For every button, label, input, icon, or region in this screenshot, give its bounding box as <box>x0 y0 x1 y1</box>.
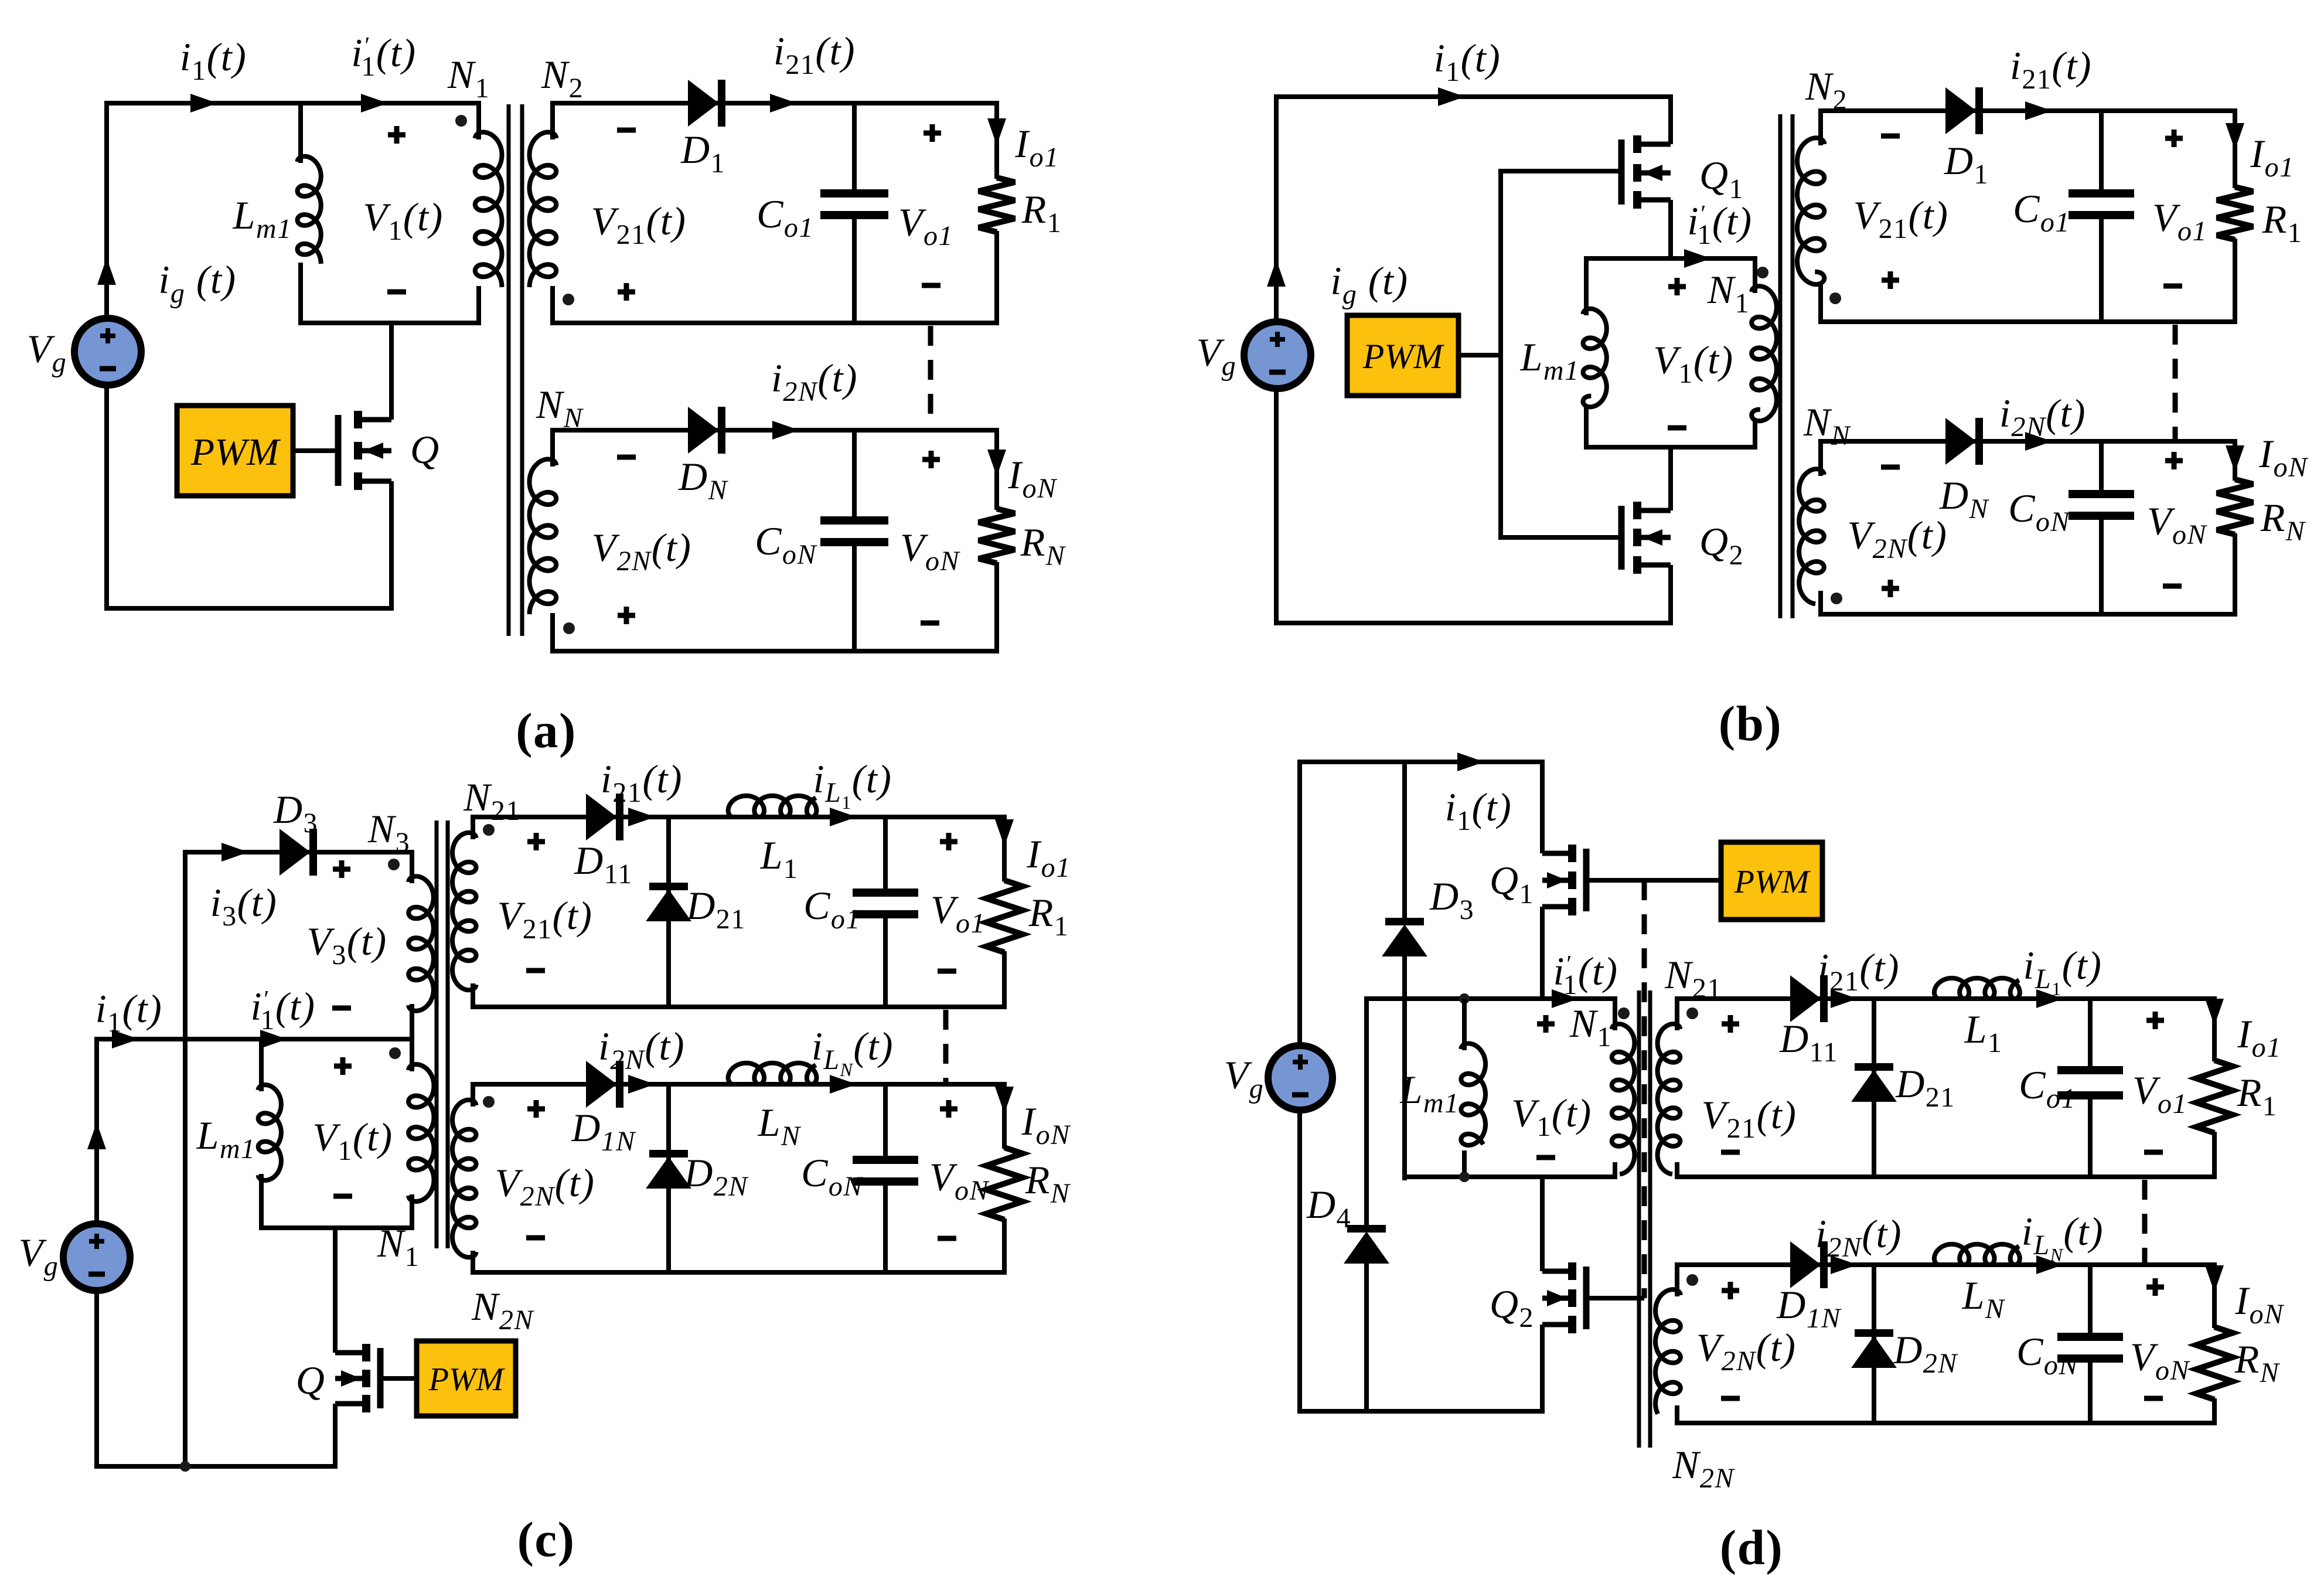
label minus V21 <box>617 128 636 133</box>
transformer primary winding N1 coil <box>475 132 502 287</box>
secondary N2 lead top (b) <box>1818 108 1823 145</box>
MOSFET Q2 (b) <box>1637 508 1671 513</box>
capacitor CoN plates <box>820 516 888 525</box>
label plus V2N (c) <box>527 1107 545 1112</box>
voltage source Vg (c) <box>63 1224 130 1291</box>
inductor LN (d) <box>1934 1244 2020 1265</box>
PWM box <box>177 406 293 496</box>
label plus V3 (c) <box>333 867 350 872</box>
capacitor Co1 plates (b) <box>2069 189 2134 198</box>
gate wire Q2 (d) <box>1586 1296 1644 1301</box>
svg-text:ig (t): ig (t) <box>158 257 236 309</box>
label plus Vo1 <box>924 131 941 136</box>
svg-text:PWM: PWM <box>1362 337 1445 376</box>
wire right top (c sec1) <box>1002 815 1007 881</box>
dashed link (b) <box>2173 325 2178 440</box>
label minus V2N (d) <box>1721 1396 1740 1401</box>
wire Q2 drain rail (b) <box>1668 445 1673 510</box>
wire right bottom (c sec1) <box>1002 951 1007 1009</box>
wire sec1 top (d) <box>1675 996 2214 1001</box>
wire right top (b secN) <box>2233 439 2237 481</box>
current arrow i1 (d) <box>1457 753 1484 771</box>
secondary N2N lead bottom (c) <box>471 1251 475 1275</box>
inductor L1 (c) <box>728 796 817 817</box>
phase dot N2 (b) <box>1829 292 1841 304</box>
inductor Lm1 lead top (d) <box>1462 999 1467 1050</box>
current arrow i1prime <box>361 94 388 113</box>
current arrow i21 (b) <box>2025 101 2052 120</box>
wire bottom rail <box>104 606 394 611</box>
wire Lm1 branch top (c) <box>259 1037 264 1091</box>
secondary NN coil (b) <box>1799 469 1824 604</box>
diode D1 (b) <box>1946 88 1975 133</box>
resistor RN (b) <box>2217 479 2253 535</box>
wire left vertical (b) <box>1274 97 1279 324</box>
svg-text:V1(t): V1(t) <box>363 195 443 246</box>
wire secN bottom (d) <box>1675 1421 2217 1425</box>
wire top rail <box>104 101 479 105</box>
svg-text:i1(t): i1(t) <box>96 986 163 1038</box>
svg-text:i1(t): i1(t) <box>1434 36 1501 87</box>
capacitor CoN lead top (d) <box>2088 1262 2093 1338</box>
gate wire Q1 (b) <box>1498 169 1621 173</box>
wire right bottom (b secN) <box>2233 533 2237 617</box>
MOSFET Q2 (d) <box>1542 1269 1572 1274</box>
wire right top (d sec1) <box>2212 996 2217 1061</box>
secondary N21 lead bottom (d) <box>1675 1162 1679 1179</box>
wire Q1 drain rail (d) <box>1540 760 1545 853</box>
label minus V3 (c) <box>332 1006 351 1011</box>
diode D1N (c) <box>587 1062 616 1107</box>
current arrow i1 (b) <box>1438 87 1465 106</box>
wire right bottom (c secN) <box>1002 1218 1007 1275</box>
label plus Vo1 (b) <box>2165 136 2183 141</box>
freewheel branch D2N (d) <box>1872 1265 1876 1423</box>
label plus VoN <box>922 457 940 462</box>
wire right bottom (d secN) <box>2212 1398 2217 1425</box>
secondary winding N2 coil <box>530 132 557 287</box>
wire secondaryN top <box>550 428 997 433</box>
current arrow up (c) <box>87 1122 106 1149</box>
capacitor CoN lead top (b) <box>2099 439 2104 495</box>
svg-text:V1(t): V1(t) <box>1653 338 1733 389</box>
capacitor Co1 lead top (c) <box>883 815 888 894</box>
transformer core (c) <box>435 821 439 1248</box>
capacitor CoN lead bottom (d) <box>2088 1357 2093 1425</box>
svg-text:ig (t): ig (t) <box>1330 258 1408 310</box>
wire secondaryN bottom <box>550 649 999 653</box>
diode D11 (c) <box>587 795 616 839</box>
diode D2N (d) <box>1855 1329 1893 1337</box>
dashed link between outputs <box>928 326 933 429</box>
primary winding coil (b) <box>1751 286 1777 421</box>
wire right top (d secN) <box>2212 1262 2217 1328</box>
label plus V2N <box>618 613 635 618</box>
junction dot Lm1 bottom (d) <box>1459 1172 1470 1182</box>
current arrow iL1 (c) <box>830 808 857 826</box>
resistor R1 (d) <box>2196 1060 2233 1133</box>
capacitor Co1 lead bottom (b) <box>2099 214 2104 324</box>
resistor R1 (b) <box>2217 187 2253 240</box>
current arrow i2N <box>772 421 799 440</box>
label minus V1 (c) <box>333 1194 352 1199</box>
label plus V2N (d) <box>1722 1288 1739 1293</box>
label minus VoN (b) <box>2163 584 2182 589</box>
svg-text:i3(t): i3(t) <box>210 880 278 932</box>
svg-text:i′1(t): i′1(t) <box>351 30 416 82</box>
secondary N2 lead bottom (b) <box>1818 284 1823 324</box>
wire secondary1 right bottom <box>994 231 999 325</box>
capacitor Co1 lead top (d) <box>2088 996 2093 1071</box>
label plus V1 (b) <box>1668 284 1686 290</box>
secondary winding NN lead bottom <box>550 613 555 653</box>
svg-text:PWM: PWM <box>428 1361 506 1398</box>
wire bottom rail (b) <box>1274 621 1673 625</box>
capacitor Co1 plates (c) <box>853 888 918 897</box>
junction dot bottom rail (c) <box>180 1461 190 1472</box>
wire top rail (b) <box>1274 94 1671 99</box>
label minus VoN (c) <box>938 1236 956 1241</box>
wire right bottom (d sec1) <box>2212 1132 2217 1179</box>
wire Lm1 branch bottom (c) <box>259 1174 264 1230</box>
label minus VoN (d) <box>2144 1396 2163 1401</box>
freewheel branch D21 (d) <box>1872 999 1876 1177</box>
secondary N2 coil (b) <box>1797 138 1824 284</box>
D3 rail upper (d) <box>1402 762 1407 919</box>
wire V1 loop top (b) <box>1586 256 1755 261</box>
phase dot secondary NN <box>563 622 575 634</box>
svg-text:i1(t): i1(t) <box>1445 785 1512 836</box>
capacitor Co1 lead top (b) <box>2099 108 2104 195</box>
capacitor Co1 plates (d) <box>2057 1066 2123 1074</box>
svg-text:i1(t): i1(t) <box>180 35 247 86</box>
wire secN top (c) <box>471 1082 1004 1087</box>
current arrow i2N (d) <box>1831 1255 1858 1274</box>
resistor R1 (c) <box>986 880 1023 952</box>
wire secondary1 bottom (b) <box>1818 319 2237 324</box>
wire V1 loop bottom (d) <box>1405 1175 1615 1179</box>
diode D2N (c) <box>649 1150 688 1158</box>
label plus VoN (b) <box>2165 458 2183 464</box>
wire secondary1 top (b) <box>1818 108 2235 113</box>
phase dot N2N (c) <box>483 1096 495 1108</box>
wire V1 loop bottom (c) <box>259 1225 414 1230</box>
label plus VoN (d) <box>2146 1285 2164 1290</box>
current arrow i1prime (c) <box>260 1030 287 1048</box>
primary N1 lead top (c) <box>410 1037 414 1071</box>
secondary N2N lead top (c) <box>471 1082 475 1107</box>
current arrow ig (b) <box>1267 260 1286 287</box>
phase dot N1 (c) <box>389 1047 401 1059</box>
diode DN (b) <box>1946 419 1975 464</box>
resistor RN (d) <box>2196 1327 2233 1400</box>
svg-text:i′1(t): i′1(t) <box>1687 199 1752 250</box>
capacitor CoN top lead <box>852 428 857 522</box>
wire secondary1 top <box>550 101 997 105</box>
label plus V1 <box>388 132 405 138</box>
label minus V21 (d) <box>1721 1150 1740 1155</box>
wire drain rail (c) <box>333 1228 338 1353</box>
label plus V21 (b) <box>1882 278 1899 283</box>
gate rail vertical (b) <box>1498 171 1503 537</box>
svg-text:i′1(t): i′1(t) <box>1553 949 1618 1000</box>
primary N1 lead top (d) <box>1613 996 1617 1030</box>
current arrow i1 <box>190 94 217 113</box>
wire source to bottom rail <box>389 481 394 611</box>
primary N1 lead bottom (c) <box>410 1194 414 1230</box>
current arrow i2N (c) <box>628 1075 655 1094</box>
current arrow i1prime (b) <box>1684 249 1711 268</box>
diode D21 (d) <box>1855 1063 1893 1071</box>
wire left vertical from Vg to top rail <box>104 103 109 321</box>
label minus Vo1 <box>922 283 940 288</box>
wire Q1 drain rail (b) <box>1668 94 1673 144</box>
label plus V1 (d) <box>1537 1022 1555 1027</box>
svg-text:(a): (a) <box>516 703 577 758</box>
capacitor CoN plates (c) <box>853 1156 918 1164</box>
primary N1 coil (c) <box>408 1064 434 1201</box>
wire Q2 source to bottom (b) <box>1668 565 1673 625</box>
secondary N21 coil (c) <box>452 833 476 990</box>
transformer primary winding N1 top lead <box>476 101 481 139</box>
diode D4 (d) <box>1347 1225 1386 1233</box>
secondary winding N2 lead top <box>550 101 555 139</box>
gate wire Q2 (b) <box>1498 535 1620 540</box>
wire Lm1 branch bottom <box>298 263 303 325</box>
wire Q1 source to V1 top (b) <box>1668 200 1673 261</box>
primary winding lead bottom (b) <box>1753 420 1757 450</box>
wire secondaryN bottom (b) <box>1818 612 2237 617</box>
MOSFET Q <box>358 417 391 423</box>
wire D3 branch (c) <box>183 850 412 855</box>
wire secN bottom (c) <box>471 1270 1007 1275</box>
primary N1 coil (d) <box>1612 1024 1635 1174</box>
secondary N21 coil (d) <box>1658 1024 1681 1174</box>
transformer primary winding N1 bottom lead <box>476 286 481 325</box>
current arrow Io1 <box>987 118 1006 145</box>
label plus Vo1 (c) <box>940 839 957 845</box>
voltage source Vg <box>74 318 141 385</box>
wire PWM output (b) <box>1459 353 1501 358</box>
secondary N21 lead top (d) <box>1675 996 1679 1030</box>
junction dot Lm1 top (d) <box>1459 993 1470 1004</box>
svg-text:V1(t): V1(t) <box>312 1115 393 1166</box>
wire V1 loop bottom (b) <box>1584 445 1757 450</box>
MOSFET Q1 (b) <box>1637 142 1671 147</box>
wire Q2 drain rail (d) <box>1540 1177 1545 1271</box>
secondary N21 lead top (c) <box>471 815 475 839</box>
capacitor CoN lead top (c) <box>883 1082 888 1161</box>
PWM box (b) <box>1347 315 1459 396</box>
dashed link (c) <box>943 1010 949 1082</box>
label minus V1 (d) <box>1536 1155 1555 1160</box>
svg-text:i′1(t): i′1(t) <box>250 984 315 1036</box>
wire sec1 top (c) <box>471 815 1004 819</box>
phase dot N21 (c) <box>483 824 495 836</box>
wire i1prime horizontal (d) <box>1364 996 1615 1001</box>
wire Lm1 branch top (b) <box>1584 256 1589 315</box>
svg-text:Q: Q <box>296 1358 326 1402</box>
gate wire Q1 (d) <box>1586 878 1721 883</box>
current arrow i1 (c) <box>112 1030 139 1048</box>
current arrow iLN (c) <box>830 1075 857 1094</box>
label minus V1 <box>387 290 406 295</box>
gate wire (c) <box>380 1376 417 1381</box>
phase dot N1 (d) <box>1618 1007 1630 1019</box>
current arrow IoN (d) <box>2205 1265 2224 1292</box>
current arrow IoN (c) <box>995 1087 1014 1114</box>
phase dot N1 (b) <box>1757 267 1768 278</box>
label plus Vo1 (d) <box>2146 1018 2164 1023</box>
wire secondary1 right top <box>994 101 999 179</box>
svg-text:V3(t): V3(t) <box>306 919 387 971</box>
svg-text:(d): (d) <box>1720 1520 1783 1575</box>
MOSFET Q1 (d) <box>1542 851 1572 856</box>
PWM box (d) <box>1721 842 1822 920</box>
phase dot NN (b) <box>1831 593 1842 604</box>
quadrant (c): forward converter with reset winding <box>19 757 1071 1567</box>
wire Lm1 branch bottom (b) <box>1584 406 1589 450</box>
wire left vertical (d) <box>1297 762 1302 1048</box>
primary winding lead top (b) <box>1753 256 1757 293</box>
wire right bottom (b sec1) <box>2233 239 2237 324</box>
label minus V2N (c) <box>526 1235 545 1241</box>
wire drain rail from V1 bottom <box>389 321 394 420</box>
wire bottom rail (d) <box>1297 1409 1545 1414</box>
voltage source Vg (d) <box>1268 1046 1333 1110</box>
capacitor Co1 lead bottom (d) <box>2088 1094 2093 1179</box>
secondary N2N lead top (d) <box>1675 1262 1679 1296</box>
current arrow iL1 (d) <box>2036 989 2063 1008</box>
current arrow Io1 (b) <box>2226 123 2244 150</box>
wire V1 loop bottom <box>298 321 481 325</box>
secondary N2N coil (c) <box>452 1100 476 1258</box>
wire secN top (d) <box>1675 1262 2214 1267</box>
wire Lm1 branch top <box>298 101 303 163</box>
current arrow IoN <box>987 450 1006 476</box>
wire top rail (d) <box>1297 760 1543 764</box>
wire sec1 bottom (d) <box>1675 1175 2217 1179</box>
capacitor CoN plates (d) <box>2057 1333 2123 1341</box>
label minus Vo1 (d) <box>2144 1150 2163 1155</box>
label minus V1 (b) <box>1668 425 1686 431</box>
capacitor Co1 plates <box>820 189 888 198</box>
svg-text:(c): (c) <box>517 1512 575 1567</box>
label plus V21 (c) <box>527 839 545 845</box>
MOSFET Q (c) <box>335 1350 366 1356</box>
capacitor Co1 lead bottom (c) <box>883 913 888 1009</box>
current arrow i21 (d) <box>1831 989 1858 1008</box>
inductor Lm1 coil (c) <box>258 1085 281 1180</box>
secondary NN lead top (b) <box>1818 439 1823 476</box>
resistor RN <box>979 509 1015 563</box>
label minus Vo1 (b) <box>2163 284 2182 289</box>
secondary N2N lead bottom (d) <box>1675 1405 1679 1425</box>
phase dot N2N (d) <box>1686 1274 1698 1286</box>
inductor L1 (d) <box>1934 978 2020 999</box>
dashed gate link (d) <box>1642 880 1647 1298</box>
label plus VoN (c) <box>940 1107 957 1112</box>
quadrant (d): two-switch forward converter <box>1224 753 2285 1575</box>
inductor Lm1 coil (d) <box>1461 1043 1485 1145</box>
secondary winding NN lead top <box>550 428 555 467</box>
current arrow i21 (c) <box>628 808 655 826</box>
label plus V1 (c) <box>334 1064 352 1069</box>
wire right top (b sec1) <box>2233 108 2237 188</box>
wire left vertical (c) <box>94 1039 99 1226</box>
label minus V21 (b) <box>1881 134 1900 139</box>
transformer core <box>507 104 511 636</box>
wire PWM to gate <box>293 448 338 453</box>
voltage source Vg (b) <box>1244 322 1311 389</box>
diode D3 (c) <box>280 830 309 874</box>
inductor Lm1 coil <box>298 156 321 264</box>
capacitor Co1 top lead <box>852 101 857 195</box>
freewheel branch D21 (c) <box>666 817 671 1007</box>
svg-text:(b): (b) <box>1719 696 1782 751</box>
wire source rail (c) <box>333 1404 338 1469</box>
current arrow Io1 (d) <box>2205 999 2224 1026</box>
current arrow ig upward <box>97 258 116 285</box>
primary N1 lead bottom (d) <box>1613 1162 1617 1179</box>
capacitor CoN plates (b) <box>2069 490 2134 498</box>
capacitor CoN lead bottom (b) <box>2099 515 2104 617</box>
current arrow Io1 (c) <box>995 819 1014 846</box>
phase dot N3 (c) <box>388 859 400 870</box>
wire secondaryN right bottom <box>994 562 999 653</box>
label minus VoN <box>921 621 939 626</box>
transformer core (b) <box>1778 114 1783 618</box>
quadrant (b): two-switch flyback converter <box>1197 36 2309 751</box>
capacitor Co1 bottom lead <box>852 214 857 325</box>
wire sec1 bottom (c) <box>471 1005 1007 1009</box>
phase dot secondary N2 <box>563 294 574 305</box>
secondary winding NN coil <box>530 459 557 614</box>
current arrow IoN (b) <box>2226 445 2244 472</box>
phase dot N21 (d) <box>1686 1007 1698 1019</box>
label plus V2N (b) <box>1882 586 1899 591</box>
reset winding N3 lead bottom (c) <box>410 1004 414 1041</box>
wire right top (c secN) <box>1002 1082 1007 1149</box>
wire secondaryN right top <box>994 428 999 510</box>
wire bottom rail (c) <box>94 1464 338 1469</box>
PWM box (c) <box>417 1341 516 1416</box>
freewheel branch D2N (c) <box>666 1084 671 1272</box>
label minus V2N <box>617 455 636 460</box>
dashed link (d) <box>2142 1180 2148 1263</box>
current arrow i1prime (d) <box>1552 989 1579 1008</box>
label plus V21 (d) <box>1722 1022 1739 1027</box>
svg-text:PWM: PWM <box>1734 864 1811 900</box>
wire secondary1 bottom <box>550 321 999 325</box>
diode D3 (d) <box>1385 918 1424 925</box>
diode D1N (d) <box>1791 1242 1820 1287</box>
label minus V2N (b) <box>1881 465 1900 470</box>
current arrow i21 <box>770 94 797 113</box>
quadrant (a): flyback converter, single switch, N outputs <box>27 29 1066 758</box>
wire Q2 source rail (d) <box>1540 1325 1545 1414</box>
diode D21 (c) <box>649 883 688 890</box>
wire Q1 source rail (d) <box>1540 907 1545 1001</box>
current arrow i2N (b) <box>2025 432 2052 451</box>
label minus V21 (c) <box>526 968 545 973</box>
svg-text:V1(t): V1(t) <box>1511 1091 1592 1142</box>
secondary winding N2 lead bottom <box>550 286 555 325</box>
secondary NN lead bottom (b) <box>1818 591 1823 617</box>
diode D11 (d) <box>1791 976 1820 1021</box>
label minus Vo1 (c) <box>938 969 956 974</box>
current arrow iLN (d) <box>2036 1255 2063 1274</box>
